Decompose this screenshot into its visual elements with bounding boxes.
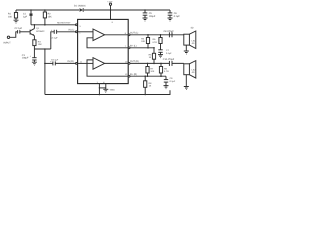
wire input to C2 bbox=[10, 32, 18, 38]
svg-text:C5 1µF: C5 1µF bbox=[51, 59, 59, 62]
IC U1 box bbox=[78, 19, 129, 83]
wire OUT(R) line bbox=[128, 62, 184, 64]
ground (C9) bbox=[164, 86, 169, 89]
node input terminal bbox=[4, 36, 12, 44]
svg-text:4Ω: 4Ω bbox=[192, 71, 195, 74]
svg-text:C9: C9 bbox=[170, 77, 174, 80]
pin OUT(R) bbox=[128, 63, 130, 65]
speaker LS2 bbox=[184, 61, 196, 79]
capacitor C5 bbox=[143, 9, 156, 18]
svg-text:4Ω: 4Ω bbox=[192, 42, 195, 45]
svg-text:4Ω: 4Ω bbox=[191, 26, 194, 29]
op-amp A2 bbox=[93, 58, 105, 70]
capacitor C6 bbox=[168, 10, 181, 18]
svg-text:C2 1µF: C2 1µF bbox=[15, 27, 23, 30]
svg-text:10K: 10K bbox=[38, 43, 42, 46]
ground (IC) bbox=[103, 88, 115, 92]
wire A2 feedback to pin IN-(R) bbox=[87, 60, 128, 76]
svg-text:C6: C6 bbox=[174, 12, 178, 15]
resistor R8 bbox=[144, 76, 153, 94]
svg-text:0.1µF: 0.1µF bbox=[166, 52, 172, 55]
svg-text:IN- (L): IN- (L) bbox=[130, 45, 137, 48]
pin IN-(R) bbox=[128, 75, 130, 77]
svg-text:100µF: 100µF bbox=[22, 57, 29, 60]
ground (LS2) bbox=[184, 87, 189, 90]
svg-text:C1: C1 bbox=[23, 13, 27, 16]
wire bus down to lower channel bbox=[44, 49, 46, 95]
svg-text:R5: R5 bbox=[149, 54, 153, 57]
wire emitter node bbox=[34, 48, 50, 50]
svg-text:INPUT: INPUT bbox=[4, 42, 12, 45]
svg-text:IN (R): IN (R) bbox=[68, 60, 74, 63]
svg-text:R1: R1 bbox=[8, 13, 12, 16]
svg-text:OUT (R): OUT (R) bbox=[130, 60, 139, 63]
wire C5b to IN(R) pin bbox=[55, 62, 75, 64]
capacitor C1 bbox=[23, 9, 33, 25]
node V+ terminal bbox=[107, 1, 113, 11]
wire IC bottom pin to ground line bbox=[98, 84, 100, 95]
resistor R5 bbox=[149, 48, 156, 64]
svg-text:C5: C5 bbox=[149, 12, 153, 15]
resistor R9 bbox=[159, 63, 169, 76]
svg-text:1µF: 1µF bbox=[23, 15, 28, 18]
wire mute line bbox=[31, 24, 75, 26]
capacitor C5b lower input bbox=[50, 59, 59, 66]
resistor R3 bbox=[33, 40, 42, 49]
svg-text:MUTE/ST-BY: MUTE/ST-BY bbox=[57, 21, 71, 24]
wire A1 output bbox=[105, 34, 129, 36]
ground (C6) bbox=[168, 18, 173, 21]
svg-text:R9: R9 bbox=[164, 68, 168, 71]
ground (C3) bbox=[32, 62, 37, 65]
wire IN-(L) line bbox=[128, 47, 154, 49]
svg-text:OUT (L): OUT (L) bbox=[130, 32, 138, 35]
svg-text:0.1µF: 0.1µF bbox=[174, 15, 181, 18]
resistor R6 bbox=[152, 35, 162, 50]
wire IC V+ pin bbox=[110, 10, 112, 19]
svg-text:4.7Ω: 4.7Ω bbox=[152, 41, 157, 44]
svg-text:+: + bbox=[30, 55, 32, 58]
wire C2 to Q1 base bbox=[20, 31, 30, 33]
capacitor C3 bbox=[22, 49, 37, 62]
resistor R1 bbox=[8, 10, 18, 20]
wire pin joining stub bbox=[99, 87, 105, 89]
wire LS2 return bbox=[185, 75, 187, 87]
svg-text:4.7Ω: 4.7Ω bbox=[164, 70, 169, 73]
resistor R7 bbox=[146, 63, 155, 76]
ground (LS1) bbox=[184, 51, 189, 54]
capacitor C8 bbox=[164, 30, 175, 37]
wire IC gnd pin bbox=[105, 84, 107, 90]
pin mute bbox=[76, 24, 78, 26]
svg-text:IN (L): IN (L) bbox=[69, 29, 75, 32]
svg-text:10K: 10K bbox=[150, 70, 154, 73]
svg-text:10K: 10K bbox=[8, 15, 13, 18]
svg-text:C4 1µF: C4 1µF bbox=[51, 36, 59, 39]
wire IN+ to A1 bbox=[78, 31, 93, 33]
capacitor C7 bbox=[158, 49, 172, 55]
wire A1 feedback to pin IN-(L) bbox=[87, 38, 128, 48]
ground (C5) bbox=[143, 18, 148, 21]
pin OUT(L) bbox=[128, 34, 130, 36]
pin IN-(L) bbox=[128, 47, 130, 49]
wire to C5b bbox=[45, 62, 53, 64]
svg-text:Q1: Q1 bbox=[36, 27, 40, 30]
svg-text:R6: R6 bbox=[153, 38, 157, 41]
svg-text:D1 1N4001: D1 1N4001 bbox=[74, 5, 86, 8]
svg-text:10K: 10K bbox=[141, 40, 145, 43]
wire top supply rail bbox=[16, 9, 79, 11]
wire C4 to IN+(L) pin bbox=[57, 31, 76, 33]
ground (C7) bbox=[158, 55, 163, 58]
resistor R4 bbox=[141, 35, 149, 48]
wire ground line bbox=[45, 90, 170, 94]
svg-text:C10 470µF: C10 470µF bbox=[163, 58, 175, 61]
svg-text:BC550C: BC550C bbox=[36, 30, 45, 33]
svg-text:R2: R2 bbox=[48, 13, 52, 16]
wire A2 output to pin OUT(R) bbox=[105, 62, 129, 64]
wire IN(R) to A2 bbox=[78, 62, 93, 64]
svg-text:100µF: 100µF bbox=[149, 15, 156, 18]
capacitor C4 bbox=[51, 29, 59, 39]
resistor R2 bbox=[43, 9, 52, 25]
svg-text:0.1µF: 0.1µF bbox=[170, 80, 176, 83]
svg-text:R3: R3 bbox=[38, 40, 42, 43]
pin IN+(L) bbox=[76, 31, 78, 33]
svg-text:1K: 1K bbox=[149, 56, 152, 59]
svg-text:IN- (R): IN- (R) bbox=[130, 73, 137, 76]
wire OUT(L) line bbox=[128, 34, 184, 36]
wire LS1 return bbox=[185, 45, 187, 51]
svg-text:C3: C3 bbox=[22, 54, 26, 57]
transistor Q1 bbox=[30, 27, 45, 36]
capacitor C2 bbox=[15, 27, 23, 33]
op-amp A1 bbox=[93, 29, 105, 41]
wire IN-(R) line bbox=[128, 75, 166, 77]
svg-text:15K: 15K bbox=[48, 16, 53, 19]
wire Q1 collector to mute line bbox=[33, 25, 35, 29]
svg-text:3: 3 bbox=[79, 25, 81, 28]
svg-text:C8 470µF: C8 470µF bbox=[164, 30, 175, 33]
svg-text:R8: R8 bbox=[149, 82, 153, 85]
capacitor C9 bbox=[164, 76, 176, 85]
svg-text:C7: C7 bbox=[166, 49, 170, 52]
ground (R1) bbox=[14, 20, 19, 23]
svg-text:9: 9 bbox=[112, 21, 114, 24]
diode D1 bbox=[74, 5, 86, 12]
wire riser to C4 bbox=[51, 32, 54, 49]
svg-text:R7: R7 bbox=[150, 68, 154, 71]
svg-text:+12V: +12V bbox=[107, 1, 113, 4]
svg-text:1K: 1K bbox=[149, 85, 152, 88]
wire Q1 emitter down bbox=[33, 36, 35, 40]
capacitor C10 bbox=[163, 58, 175, 66]
pin IN(R) bbox=[76, 63, 78, 65]
svg-text:R4: R4 bbox=[141, 38, 145, 41]
speaker LS1 bbox=[184, 26, 196, 48]
svg-text:GND: GND bbox=[110, 88, 115, 91]
